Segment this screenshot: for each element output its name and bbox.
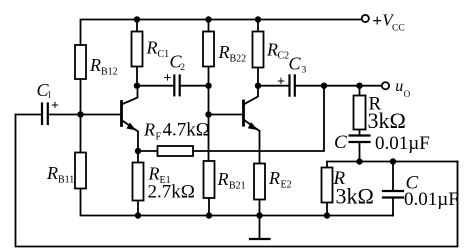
svg-text:C1: C1 xyxy=(158,49,170,60)
svg-text:CC: CC xyxy=(392,23,405,33)
svg-text:B22: B22 xyxy=(230,54,247,65)
svg-text:+: + xyxy=(372,11,382,30)
svg-text:R: R xyxy=(148,164,160,184)
svg-text:O: O xyxy=(404,89,411,99)
svg-text:+: + xyxy=(51,99,59,114)
svg-text:F: F xyxy=(156,132,162,143)
svg-text:R: R xyxy=(266,40,278,60)
svg-text:R: R xyxy=(217,169,229,189)
svg-text:R: R xyxy=(146,38,158,58)
svg-text:0.01µF: 0.01µF xyxy=(375,133,430,154)
svg-text:E2: E2 xyxy=(281,180,292,191)
svg-text:R: R xyxy=(46,163,58,183)
svg-text:B21: B21 xyxy=(229,181,246,192)
svg-text:R: R xyxy=(89,55,101,75)
svg-text:u: u xyxy=(395,78,403,95)
svg-text:2.7kΩ: 2.7kΩ xyxy=(148,182,195,203)
svg-text:B11: B11 xyxy=(58,175,74,186)
svg-text:+: + xyxy=(277,74,285,89)
svg-text:3kΩ: 3kΩ xyxy=(368,108,406,133)
svg-text:C: C xyxy=(289,54,302,74)
svg-text:+: + xyxy=(164,71,172,86)
svg-text:2: 2 xyxy=(180,63,185,73)
svg-text:0.01µF: 0.01µF xyxy=(404,189,459,210)
svg-text:3: 3 xyxy=(302,66,307,76)
svg-text:3kΩ: 3kΩ xyxy=(336,183,374,208)
svg-text:R: R xyxy=(268,168,280,188)
svg-text:R: R xyxy=(143,120,155,140)
svg-text:4.7kΩ: 4.7kΩ xyxy=(163,120,210,141)
svg-text:B12: B12 xyxy=(101,67,118,78)
svg-text:R: R xyxy=(218,42,230,62)
svg-text:C2: C2 xyxy=(278,51,290,62)
svg-text:C: C xyxy=(334,132,347,153)
